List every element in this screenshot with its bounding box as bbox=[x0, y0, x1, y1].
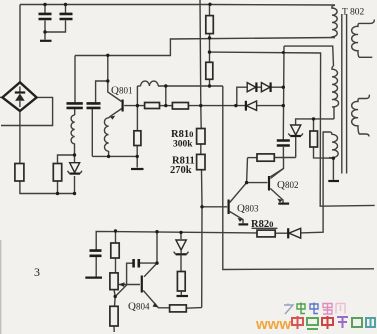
svg-text:Q802: Q802 bbox=[277, 179, 298, 191]
svg-text:R810: R810 bbox=[171, 129, 193, 140]
svg-text:Q801: Q801 bbox=[111, 85, 132, 97]
svg-text:Q803: Q803 bbox=[237, 203, 259, 215]
svg-text:T 802: T 802 bbox=[342, 8, 365, 18]
svg-text:3: 3 bbox=[34, 265, 40, 279]
svg-text:300k: 300k bbox=[173, 140, 193, 150]
svg-text:Q804: Q804 bbox=[128, 301, 150, 313]
svg-text:www: www bbox=[255, 316, 291, 333]
svg-text:270k: 270k bbox=[170, 165, 192, 176]
